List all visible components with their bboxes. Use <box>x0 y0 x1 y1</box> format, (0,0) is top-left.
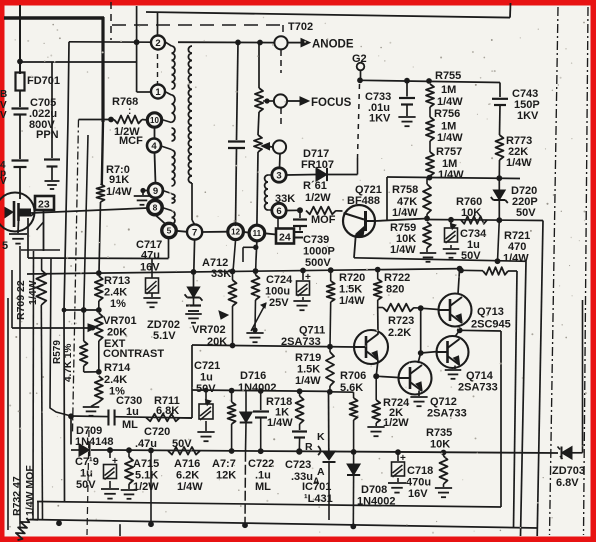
node dot bus x151 <box>148 521 154 527</box>
node dot C722 bottom <box>258 448 264 454</box>
node dot R719 bottom <box>327 389 333 395</box>
svg-text:R720: R720 <box>339 272 365 284</box>
pin circle 10 <box>147 113 161 127</box>
svg-text:2SA733: 2SA733 <box>427 408 467 420</box>
node dot R706 bottom <box>351 449 357 455</box>
wire Q714 collector <box>455 330 460 336</box>
node dot R712 bottom <box>252 327 257 332</box>
label R732 1/4W MOF rotated <box>24 465 36 516</box>
svg-text:6.8V: 6.8V <box>556 477 579 489</box>
wire rail y345 <box>192 345 355 347</box>
svg-text:ML: ML <box>255 481 271 493</box>
svg-text:R758: R758 <box>392 184 418 196</box>
wire vertical x12 corner into contrast wire <box>11 270 13 328</box>
wire vertical from top border at x20 <box>19 5 21 74</box>
label VR702 20K <box>192 324 227 348</box>
svg-text:16V: 16V <box>140 262 160 274</box>
wire D709 riser <box>70 416 72 444</box>
svg-text:50V: 50V <box>76 479 96 491</box>
node dot D709-x498 y261 <box>495 258 501 264</box>
wire stub circle2 to top rail <box>157 12 159 35</box>
pin box 24 <box>276 229 294 244</box>
capacitor C734 electrolytic <box>443 220 460 258</box>
pin circle 8 <box>148 200 162 214</box>
wire Q721 collector-rail y221 <box>375 219 427 222</box>
resistor R773 zigzag <box>496 135 504 178</box>
label VR701 EXT CONTRAST <box>103 315 164 360</box>
svg-text::: : <box>128 106 131 117</box>
wire stub x120 bus to border <box>119 524 121 536</box>
svg-text:D708: D708 <box>361 484 387 496</box>
label Q721 BF488 <box>347 184 382 207</box>
label R <box>305 441 313 453</box>
svg-text:ML: ML <box>122 419 138 431</box>
terminal circle third <box>273 140 286 153</box>
pin circle 5 <box>162 223 176 237</box>
wire pin column links <box>155 128 167 225</box>
capacitor C739 under pin6 node <box>293 210 307 237</box>
node dot R713 bottom <box>96 307 102 313</box>
label R718 1K <box>266 396 293 429</box>
wire R723 to Q713 base <box>421 308 439 309</box>
wire Q712 base <box>376 376 398 377</box>
label C724 <box>265 274 293 309</box>
svg-text:50V: 50V <box>196 383 216 395</box>
capacitor C743 <box>492 83 508 136</box>
transistor Q713 <box>439 294 472 327</box>
node dot R720 top <box>328 267 334 273</box>
wiper arrow third terminal <box>262 143 273 150</box>
wire Q714 base <box>421 352 438 354</box>
svg-text:23: 23 <box>38 199 50 211</box>
node dot R718 top <box>297 388 303 394</box>
wire anode rail y42 <box>178 41 275 43</box>
label D716 1N4002 <box>238 370 277 394</box>
svg-text:R755: R755 <box>435 70 461 82</box>
transistor Q714 <box>437 336 469 368</box>
node dot C718 top <box>395 449 401 455</box>
svg-text:10: 10 <box>150 116 159 125</box>
transistor Q721 <box>343 205 375 237</box>
svg-text:47u: 47u <box>141 250 160 262</box>
svg-text:.47u: .47u <box>135 438 157 450</box>
wire pin 11 to box 24 <box>265 233 276 234</box>
svg-text:1M: 1M <box>441 121 456 133</box>
svg-text:1/4W: 1/4W <box>106 186 132 198</box>
wire Q712 emitter to ground <box>410 391 427 407</box>
node dot VR702 bottom <box>230 343 236 349</box>
label FD701 <box>27 75 60 87</box>
wire rail y80 G2 to C743 <box>360 80 500 82</box>
label R710 91K <box>106 164 132 198</box>
svg-text:C723: C723 <box>285 459 311 471</box>
node dot R755 tap <box>426 78 432 84</box>
label R755 <box>435 70 463 108</box>
svg-text:ZD703: ZD703 <box>552 465 585 477</box>
svg-text:4: 4 <box>151 141 157 152</box>
wire vertical dash-dot x77 <box>73 120 79 433</box>
wire y418 right segment <box>180 417 192 419</box>
wire y310 corner to R713 column <box>64 309 99 311</box>
arrow ANODE <box>288 39 310 47</box>
svg-text:2.2K: 2.2K <box>388 327 411 339</box>
label R721 470 <box>503 230 530 265</box>
shunt regulator IC701 TL431 <box>318 446 336 520</box>
svg-text:R722: R722 <box>384 272 410 284</box>
svg-text:C718: C718 <box>407 465 433 477</box>
svg-text:1u: 1u <box>80 468 93 480</box>
wire coil1 top tap <box>166 42 172 46</box>
node dot R717 top <box>229 388 235 394</box>
svg-text:10K: 10K <box>430 439 450 451</box>
svg-text:1/4W: 1/4W <box>506 157 532 169</box>
wire y42 from x69 corner to pin 2 <box>69 41 152 43</box>
resistor R706 zigzag <box>350 392 358 451</box>
transistor Q701 internal bars <box>14 201 19 227</box>
node dot C730 left <box>68 413 74 419</box>
label G2 <box>352 53 367 65</box>
svg-text:R723: R723 <box>388 315 414 327</box>
svg-text:FR107: FR107 <box>301 159 334 171</box>
svg-text:C724: C724 <box>266 274 293 286</box>
R712 wiper diagonal <box>251 303 266 331</box>
wire y418 C730 rail <box>71 416 192 418</box>
node junction dot R768 left <box>108 117 114 123</box>
svg-text:A716: A716 <box>174 458 200 470</box>
wire pins 5-7 <box>176 231 187 232</box>
label ZD702 5.1V <box>147 319 180 342</box>
pin circle 1 <box>151 85 165 99</box>
zener ZD702 <box>185 240 203 323</box>
label R759 <box>390 222 416 256</box>
label R712 33K <box>202 257 231 280</box>
node dot R735 top <box>441 450 447 456</box>
svg-text:820: 820 <box>386 284 404 296</box>
wire Q713 emitter down <box>458 326 460 331</box>
svg-text:470u: 470u <box>406 477 431 489</box>
svg-text:R579: R579 <box>52 340 63 364</box>
svg-text:R706: R706 <box>340 370 366 382</box>
wire y211 from Q701 block to pin 8 <box>31 208 148 213</box>
node dot C724 top <box>300 268 306 274</box>
svg-text:2SA733: 2SA733 <box>458 382 498 394</box>
capacitor between rails x236 <box>228 42 245 226</box>
wire rail y178 <box>387 177 520 179</box>
svg-text:500V: 500V <box>305 257 331 269</box>
svg-text:C739: C739 <box>303 234 329 246</box>
transistor Q701 dark blob <box>5 208 31 218</box>
wire pin3 to D717 <box>286 174 316 177</box>
label C720 .47u 50V <box>135 426 192 450</box>
resistor R755 zigzag <box>426 84 434 107</box>
label R720 <box>339 272 365 307</box>
resistor R709 zigzag <box>36 258 46 519</box>
wire Q714 emitter to ground <box>445 366 462 379</box>
wire Q701 source down to y258 <box>27 218 29 258</box>
wire y258 horizontal <box>28 257 169 260</box>
svg-text:PPN: PPN <box>36 129 59 141</box>
dashed boundary T702 left <box>110 2 112 40</box>
svg-text:7: 7 <box>192 227 197 238</box>
wire x27 lower <box>19 524 21 530</box>
wire pins 12-11 <box>243 231 249 234</box>
svg-text:8: 8 <box>153 203 158 213</box>
wire top rail <box>146 12 510 18</box>
resistor R718 plus cap <box>292 391 307 452</box>
pin circle 4 <box>147 139 161 153</box>
svg-text:FOCUS: FOCUS <box>311 97 352 109</box>
label R717 12K <box>212 458 236 482</box>
wire pin6 stub down <box>277 218 279 228</box>
resistor R758 zigzag <box>423 178 431 218</box>
svg-text:1/4W: 1/4W <box>295 375 321 387</box>
label C721 1u 50V <box>194 360 220 395</box>
label R732 47 rotated <box>11 476 23 516</box>
svg-text:91K: 91K <box>109 174 129 186</box>
wire riser x358 G2 dashed <box>358 84 360 175</box>
wire y62 from x20 to riser x137 <box>20 61 137 63</box>
label C723 .33u <box>285 459 320 486</box>
label Q712 2SA733 <box>427 396 467 420</box>
svg-text:20K: 20K <box>107 327 127 339</box>
capacitor C717 electrolytic <box>143 259 160 308</box>
node dot R713 top <box>96 270 102 276</box>
wire connector x38 <box>37 502 39 520</box>
node dot Q711 emitter junction <box>373 373 379 379</box>
wire riser x137 top-border to pin1 wire <box>137 6 151 92</box>
resistor R757 zigzag <box>426 107 434 178</box>
ground symbol R714 <box>83 407 100 416</box>
wire pin12 to VR702 <box>233 240 236 272</box>
transistor Q701 outline circle <box>0 193 35 232</box>
wire bottom rail y451 <box>110 450 558 453</box>
label R768 <box>112 96 143 147</box>
svg-text:R714: R714 <box>104 362 131 374</box>
label R716 6.2K <box>174 458 203 493</box>
node dot Q713-Q714 <box>457 327 463 333</box>
label R761 1/2W <box>303 180 336 226</box>
svg-text:1000P: 1000P <box>303 246 335 258</box>
connector box 23 <box>35 196 54 211</box>
node dot bus x353 <box>350 524 356 530</box>
svg-text:9: 9 <box>153 186 158 197</box>
label D709 1N4148 <box>75 425 114 448</box>
svg-text:33K: 33K <box>275 193 295 205</box>
label C739 values <box>303 234 335 269</box>
svg-text:3: 3 <box>276 170 281 181</box>
svg-text:1/4W: 1/4W <box>267 417 293 429</box>
node dot R773 bottom <box>496 175 502 181</box>
wire Q713 collector up <box>458 269 460 294</box>
svg-text:16V: 16V <box>408 488 428 500</box>
svg-text:K: K <box>317 431 325 443</box>
svg-text:C720: C720 <box>144 426 170 438</box>
label Q711 2SA733 <box>281 325 325 349</box>
svg-text:R709 22: R709 22 <box>15 280 27 320</box>
wire Q721 emitter rail y259 <box>354 258 526 262</box>
label R715 <box>133 458 159 493</box>
svg-text:Q713: Q713 <box>477 306 504 318</box>
wire Q721 collector L riser <box>386 177 388 220</box>
resistor R724 zigzag <box>367 376 384 436</box>
wire corner x192 down <box>191 345 193 418</box>
resistor R722 zigzag <box>374 270 382 308</box>
node dot C713 top <box>107 447 113 453</box>
label R723 2.2K <box>388 315 414 339</box>
resistor R713 zigzag <box>95 276 103 310</box>
wire y247 spur <box>243 245 259 262</box>
resistor R732 diagonal zigzag <box>14 516 38 541</box>
dashed boundary T702 top <box>112 25 283 32</box>
svg-text:VR702: VR702 <box>192 324 226 336</box>
svg-text:VR701: VR701 <box>103 315 137 327</box>
svg-text:R757: R757 <box>436 146 462 158</box>
wire D717 to riser <box>328 174 358 176</box>
node junction dot x20 y62 <box>17 59 23 65</box>
svg-text:6.2K: 6.2K <box>176 470 199 482</box>
transistor Q712 <box>399 362 432 395</box>
resistor R768 zigzag horizontal <box>79 116 148 124</box>
svg-text:2SC945: 2SC945 <box>471 319 511 331</box>
label R722 820 <box>384 272 410 296</box>
wire corner x517 down <box>514 271 518 528</box>
resistor R711 zigzag horizontal <box>146 414 180 422</box>
wire bottom bus y524 <box>30 520 538 529</box>
svg-text:1/4W: 1/4W <box>438 169 464 181</box>
node dot R717 bottom <box>229 448 235 454</box>
label R714 <box>104 362 131 398</box>
svg-text:BF488: BF488 <box>347 195 380 207</box>
wire y261 corner down x526 <box>521 261 527 536</box>
svg-text:MOF: MOF <box>311 214 336 226</box>
capacitor C706 symbol with ground <box>44 62 60 189</box>
label FOCUS <box>311 97 352 109</box>
svg-text:1/4W: 1/4W <box>392 207 418 219</box>
svg-text:5: 5 <box>2 240 8 252</box>
wire contrast wiper <box>12 324 97 332</box>
potentiometer VR702 <box>219 271 237 345</box>
wire thick top-left bus <box>4 17 104 185</box>
diode D717 <box>316 168 327 181</box>
diode D716 <box>240 391 253 452</box>
label D720 <box>511 185 538 219</box>
svg-text:.33u: .33u <box>291 471 313 483</box>
wire Q711 collector up <box>377 308 379 335</box>
svg-text:2: 2 <box>155 38 160 49</box>
capacitor C724 electrolytic <box>293 271 311 311</box>
transformer T702 winding left (pins 2-5) <box>161 46 176 230</box>
wire x420 down to Q714 base <box>420 308 422 353</box>
svg-text:A715: A715 <box>133 458 159 470</box>
resistor R716 zigzag horizontal <box>168 447 200 455</box>
svg-text:ANODE: ANODE <box>312 39 354 51</box>
svg-text:V: V <box>0 110 7 121</box>
wire mid rail y272 <box>27 269 461 274</box>
svg-text:1: 1 <box>155 87 161 98</box>
label D717 FR107 <box>301 148 334 171</box>
wire Q711 emitter down <box>376 360 378 376</box>
wire vertical x51 corner to C730 wire <box>50 258 71 416</box>
svg-text:1.5K: 1.5K <box>297 364 320 376</box>
label ZD703 6.8V <box>552 465 585 489</box>
wire Q712 collector up <box>418 353 421 363</box>
resistor R760 zigzag horizontal <box>461 216 487 224</box>
wire vertical x69-x64 down to bus <box>64 42 69 502</box>
left edge partial text B <box>0 89 7 121</box>
label C713 1u 50V <box>75 456 99 491</box>
label C722 .1u ML <box>248 458 274 493</box>
svg-text:1/4W: 1/4W <box>503 253 529 265</box>
svg-text:1u: 1u <box>200 372 213 384</box>
wire top rail corner up <box>509 3 512 18</box>
wire pins 7-12 <box>202 231 228 233</box>
label D708 1N4002 <box>357 484 396 508</box>
focus potentiometer column <box>254 43 263 226</box>
resistor R717 zigzag <box>228 391 236 452</box>
node dot D720 bottom <box>496 217 502 223</box>
capacitor C713 electrolytic <box>101 450 119 499</box>
svg-text:R768: R768 <box>112 96 138 108</box>
wire bus y500 <box>37 502 501 508</box>
wire box23 leg <box>21 249 60 251</box>
capacitor C705 symbol <box>12 91 29 200</box>
svg-text:R735: R735 <box>426 427 452 439</box>
svg-text:MCF: MCF <box>119 135 143 147</box>
resistor R579 zigzag <box>80 310 99 372</box>
node dot ZD702 top <box>191 269 197 275</box>
resistor R710 zigzag <box>97 184 105 273</box>
node dot C722 top <box>258 388 264 394</box>
svg-text:1/2W: 1/2W <box>305 192 331 204</box>
label 33K <box>275 193 295 205</box>
svg-text:T702: T702 <box>288 21 313 33</box>
node dot R722 top <box>375 267 381 273</box>
resistor R719 zigzag <box>326 347 334 392</box>
node dot R721 left <box>458 268 464 274</box>
label R709 22 rotated <box>15 280 27 320</box>
node dot bus x59 <box>56 520 62 526</box>
wire vertical x20 down <box>19 246 21 524</box>
svg-text:33K: 33K <box>211 268 231 280</box>
label R713 <box>104 275 130 310</box>
resistor R756 zigzag <box>426 117 434 141</box>
svg-text:A7:7: A7:7 <box>212 458 236 470</box>
label R579 value rotated <box>63 344 74 382</box>
wire vertical x8 <box>7 298 9 530</box>
label R579 rotated <box>52 340 63 364</box>
node junction dot x260 y42 <box>257 40 263 46</box>
diode D720 zener <box>491 178 508 220</box>
wire vertical x33 <box>32 251 35 520</box>
pin circle 6 <box>272 203 286 217</box>
resistor R714 zigzag <box>91 376 103 407</box>
svg-text:¹L431: ¹L431 <box>304 493 333 505</box>
node dot R712 cross <box>253 268 259 274</box>
svg-text:1.5K: 1.5K <box>339 284 362 296</box>
svg-text:11: 11 <box>253 229 262 238</box>
label R709 1/4W rotated <box>27 280 39 305</box>
resistor R759 zigzag <box>420 222 437 262</box>
svg-text:1/4W: 1/4W <box>390 244 416 256</box>
terminal circle anode <box>274 36 287 49</box>
wire Q713 emitter rail y330 <box>460 329 501 332</box>
svg-text:R: R <box>305 441 313 453</box>
wire x151 down to bottom bus <box>150 450 152 524</box>
label R756 <box>434 108 463 144</box>
svg-text:D716: D716 <box>240 370 266 382</box>
label Q713 2SC945 <box>471 306 511 331</box>
label C717 <box>136 239 162 274</box>
